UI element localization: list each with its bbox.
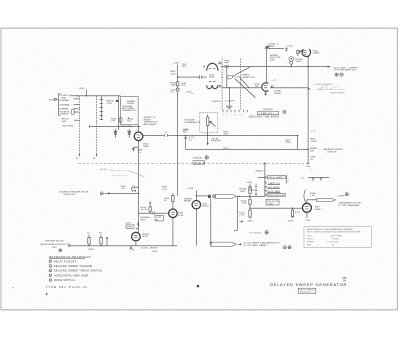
delay-time multiplier label — [184, 119, 200, 124]
+225V label above V642 — [187, 188, 194, 190]
wire gate column stub — [264, 162, 266, 197]
tube V764 label right — [313, 50, 321, 54]
capacitor C653 label — [183, 130, 189, 134]
pin cross marks — [219, 61, 221, 86]
wire V642 cathode down — [195, 209, 197, 246]
tick on V4 — [308, 88, 310, 91]
svg-text:CAPACITOR: CAPACITOR — [242, 76, 255, 79]
node junction neon/H2 — [291, 66, 292, 67]
series trim labels — [268, 43, 279, 48]
capacitor C649 — [132, 147, 138, 151]
cap row label — [301, 178, 305, 180]
svg-text:3: 3 — [50, 271, 51, 273]
svg-text:FROM CRO: FROM CRO — [64, 194, 77, 196]
svg-text:TRIG: TRIG — [127, 227, 133, 229]
svg-text:RELAY PICKOFF: RELAY PICKOFF — [54, 259, 77, 263]
gate row 2 — [268, 182, 281, 185]
ref item 5 — [49, 278, 75, 282]
switch contacts — [100, 100, 103, 120]
title DELAYED SWEEP GENERATOR — [270, 282, 347, 287]
ref item 1 — [49, 259, 77, 263]
svg-text:C740A: C740A — [234, 75, 241, 78]
model number — [343, 278, 348, 282]
capacitor C762 symbol — [285, 47, 287, 51]
resistor top labels — [87, 232, 103, 234]
svg-text:2.7K: 2.7K — [240, 215, 245, 217]
timing switch dashed wafer right — [239, 59, 241, 111]
svg-text:-150: -150 — [306, 166, 311, 168]
dashed box delay-time multiplier R660 — [200, 112, 218, 132]
svg-text:(DELAYED TIME BASE): (DELAYED TIME BASE) — [249, 116, 280, 119]
capacitor C634 in grid line — [153, 212, 155, 215]
svg-text:1 mSEC/CM SWEEP: 1 mSEC/CM SWEEP — [313, 84, 333, 86]
svg-text:SWEEP . . . . . . .5m: SWEEP . . . . . . .5m SEC/CM — [307, 242, 338, 244]
capacitor C669 label — [183, 129, 189, 133]
resistor R672 label — [223, 132, 229, 136]
svg-text:TRIG: TRIG — [49, 99, 55, 101]
node junction on H1 — [86, 95, 87, 96]
tube V764 label left — [297, 50, 303, 54]
ground symbol — [226, 106, 233, 109]
interconnect circle 2 — [340, 73, 343, 76]
svg-text:3-12: 3-12 — [130, 250, 135, 252]
svg-text:3.3M: 3.3M — [171, 85, 176, 87]
cap label C633A — [130, 250, 135, 252]
node junction V2/H3 — [177, 76, 178, 77]
wiper pivot dot — [221, 77, 222, 78]
plug-in connector bracket — [59, 94, 61, 115]
svg-text:LENGTH: LENGTH — [327, 151, 337, 153]
wire H3 to tube grid — [178, 76, 207, 78]
resistor R706 label — [239, 212, 245, 216]
wire right bus V4 — [307, 56, 309, 163]
svg-text:SWP: SWP — [62, 121, 68, 123]
svg-text:4: 4 — [50, 275, 51, 277]
resistor R637 label — [162, 187, 168, 191]
wire H6 continue — [237, 195, 265, 197]
wire tube V636 cathode down — [172, 218, 174, 246]
svg-text:THRESHOLD: THRESHOLD — [122, 110, 136, 112]
gray note dashes — [112, 175, 128, 177]
tube V645 label — [143, 144, 151, 148]
wire main sweep line H4 — [143, 134, 298, 136]
svg-text:HORIZONTAL AMPLIFIER: HORIZONTAL AMPLIFIER — [54, 273, 89, 277]
svg-text:GATE: GATE — [315, 208, 321, 211]
box side text SWEEP TO RESET — [144, 117, 158, 126]
sweep trig label — [140, 216, 150, 221]
svg-text:DELAYED TRIGGER PULSE: DELAYED TRIGGER PULSE — [59, 191, 89, 194]
svg-text:1.5K: 1.5K — [310, 195, 315, 197]
tube V636 trigger amp — [169, 209, 178, 218]
bottom connector pentagon — [211, 242, 237, 246]
svg-text:+B: +B — [310, 159, 313, 161]
svg-text:12AU6: 12AU6 — [274, 92, 282, 95]
resistor R673 label — [223, 148, 229, 150]
svg-text:CRO: CRO — [52, 247, 57, 249]
gray leader diagonal — [128, 171, 144, 177]
arrowhead H10 — [108, 192, 111, 194]
contact circles — [265, 177, 266, 196]
node dark blob — [116, 100, 118, 102]
svg-text:40K: 40K — [310, 150, 315, 152]
arrowhead H2 — [328, 66, 331, 68]
wire tube V652 pin stub bottom right — [218, 86, 222, 88]
diode D640 — [114, 129, 117, 138]
node junction V8/H7 — [249, 208, 250, 209]
tube V633B pickoff CF — [132, 232, 141, 241]
wire pot output drop — [207, 133, 209, 145]
delay pickoff dashed stub — [97, 168, 113, 171]
svg-text:MODE . . . . . . . .: MODE . . . . . . . . NORM — [307, 239, 339, 241]
node junction H9 — [88, 245, 89, 246]
wire delayed sweep output H2 — [221, 66, 330, 68]
tube V636 internal — [171, 212, 175, 214]
svg-text:100K: 100K — [268, 203, 274, 205]
capacitor C652 label — [165, 132, 168, 134]
capacitor C762 label — [285, 45, 293, 47]
svg-text:DIODE: DIODE — [127, 103, 135, 105]
capacitor C645 label — [170, 89, 176, 93]
SW660 wafer mark — [205, 156, 208, 159]
svg-text:-150V: -150V — [247, 221, 254, 223]
tube V652 label — [209, 74, 215, 78]
tube V636 label — [178, 213, 184, 217]
connector pin stubs — [74, 99, 80, 120]
svg-text:TYPE 581 PLUG-IN: TYPE 581 PLUG-IN — [46, 285, 88, 289]
+100V label top — [173, 63, 180, 65]
capacitor ground at H9 — [130, 246, 133, 249]
svg-text:TO HORIZ AMPL V74: TO HORIZ AMPL V74 — [334, 69, 357, 72]
waveform sketch — [317, 84, 346, 92]
gray sweep annotation — [313, 84, 333, 86]
sheet number mark — [197, 285, 199, 287]
svg-text:DELAYED SWEEP TRIGGER: DELAYED SWEEP TRIGGER — [54, 264, 93, 268]
wire +100V stub — [86, 89, 88, 96]
svg-text:+NORMAL: +NORMAL — [59, 103, 71, 106]
svg-text:100K: 100K — [296, 61, 302, 63]
title part box — [298, 288, 316, 293]
resistor R704 label — [241, 200, 247, 204]
svg-text:SW660A: SW660A — [193, 156, 202, 159]
TIME/DIV switch box — [258, 111, 279, 114]
svg-text:PICKOFF: PICKOFF — [211, 141, 221, 143]
resistor R704 — [249, 200, 251, 205]
svg-text:R631: R631 — [89, 249, 95, 251]
interconnect circle — [345, 193, 348, 196]
tube V760 holdoff CF — [262, 83, 269, 91]
svg-text:SWEEP: SWEEP — [60, 114, 69, 116]
tube V760 internal — [264, 86, 267, 88]
cap mark right — [272, 85, 273, 88]
resistor R706 — [249, 210, 251, 217]
svg-text:(LOW + MODE): (LOW + MODE) — [141, 248, 157, 250]
svg-text:+12.6: +12.6 — [310, 131, 316, 133]
svg-text:1K: 1K — [128, 121, 131, 123]
svg-text:TO CRT CATH. PANEL 7: TO CRT CATH. PANEL 7 — [243, 244, 269, 247]
svg-text:1 SW740: 1 SW740 — [212, 101, 222, 103]
svg-text:220K: 220K — [170, 73, 176, 75]
switch contact column — [100, 96, 102, 120]
svg-text:R673: R673 — [223, 148, 229, 150]
-150V label — [152, 251, 159, 253]
wire trigger level line — [90, 125, 141, 127]
svg-text:TO CRT (DIAGRAM): TO CRT (DIAGRAM) — [338, 204, 359, 207]
gate row 4 — [268, 191, 281, 193]
node junction on switch line — [307, 163, 309, 165]
misc right labels — [310, 131, 316, 133]
arrowhead H9 — [69, 245, 72, 247]
wire dashed switch line 1F — [78, 96, 80, 156]
svg-text:5: 5 — [50, 280, 51, 282]
tube V652 grids — [209, 69, 216, 82]
resistor R640 label — [106, 100, 113, 105]
node junction H4 right — [297, 135, 298, 136]
wire H6 from V7 — [196, 195, 208, 197]
node marks — [135, 129, 138, 131]
svg-text:1 C740F |: 1 C740F | — [225, 101, 235, 103]
svg-text:WITH CONTROLS SET AS FOLLOWS E: WITH CONTROLS SET AS FOLLOWS EXCEPT AS N… — [307, 231, 361, 234]
svg-text:R712: R712 — [295, 212, 301, 214]
heading underline — [49, 258, 85, 260]
svg-text:40.2K: 40.2K — [141, 209, 147, 211]
resistor R708 label — [310, 193, 316, 197]
wire tube plate to H8 — [307, 200, 317, 204]
wire dashed switch line 2F — [96, 96, 98, 156]
wire branch down — [185, 135, 187, 149]
wire riser to tunnel diode box — [117, 96, 119, 130]
wire bias chain V8 — [249, 184, 251, 219]
tube V714 label — [315, 207, 321, 211]
svg-text:( TIME / DIV ): ( TIME / DIV ) — [259, 113, 273, 115]
node junction R634 — [149, 213, 150, 214]
boxed label trig — [126, 225, 134, 228]
svg-text:2.2K: 2.2K — [162, 189, 167, 191]
dark segment on V5 — [137, 223, 139, 226]
tube V642 label — [202, 203, 210, 207]
svg-text:+150V: +150V — [310, 141, 317, 143]
svg-text:+225V: +225V — [246, 182, 253, 184]
delayed sweep unblanking label — [243, 242, 280, 247]
screen cap row — [308, 177, 329, 179]
wire tube V636 plate up — [172, 205, 174, 209]
capacitor C638 label — [120, 101, 122, 105]
label above box — [263, 109, 273, 111]
svg-text:75Ω TERM: 75Ω TERM — [62, 126, 73, 128]
svg-text:C633: C633 — [125, 223, 131, 225]
wire L to column — [258, 176, 265, 178]
svg-text:.001: .001 — [182, 66, 187, 68]
resistor R639 label — [111, 118, 117, 122]
svg-text:SWP HOLDOFF: SWP HOLDOFF — [268, 195, 285, 197]
pin mark top left — [203, 66, 205, 68]
resistor R649 on V2 — [177, 82, 179, 86]
capacitor C678 plates — [264, 164, 267, 165]
voltage readings note box — [304, 227, 372, 248]
tube V764 internal — [303, 50, 306, 54]
tunnel diode box text — [122, 101, 136, 123]
wire trigger bus H1 — [71, 95, 121, 97]
diode D641 — [128, 129, 131, 138]
node junction H4 branch — [185, 135, 186, 136]
node junction H9 — [100, 245, 101, 246]
svg-text:6DJ8: 6DJ8 — [178, 215, 184, 217]
node junction — [239, 196, 240, 197]
svg-text:+100V: +100V — [78, 88, 85, 90]
note box title — [307, 228, 354, 231]
svg-text:6DJ8: 6DJ8 — [209, 77, 215, 79]
svg-text:+225V: +225V — [187, 188, 194, 190]
low mode label — [141, 248, 157, 250]
svg-text:TRIG . . . . . . . .: TRIG . . . . . . . . . AUTO STAB — [307, 235, 342, 238]
resistor R758 label — [295, 58, 302, 63]
capacitor C630 — [131, 186, 138, 190]
SW660 boxed label — [193, 161, 205, 165]
svg-text:MAG . . . . . . . . .: MAG . . . . . . . . . X1 — [307, 244, 335, 247]
-150V label — [287, 221, 294, 223]
gate row 3 — [268, 186, 280, 189]
neon B758 dot — [290, 58, 292, 60]
wire box bottom to tube grid — [137, 125, 139, 132]
wire cap to sawtooth line — [226, 67, 228, 88]
svg-text:1: 1 — [50, 261, 51, 263]
svg-text:NORMAL: NORMAL — [59, 99, 69, 102]
node junction H2 — [307, 66, 309, 68]
capacitor C652 plates — [225, 61, 229, 67]
node mark — [191, 93, 194, 95]
note below box — [121, 126, 132, 128]
wire cathode drop V5 — [137, 141, 139, 228]
wire holdoff bus V3 — [266, 49, 268, 83]
svg-text:DELAYED SWEEP TIMING SWITCH: DELAYED SWEEP TIMING SWITCH — [54, 269, 102, 273]
label C740F — [225, 101, 235, 103]
wire V642 plate — [195, 190, 197, 200]
arrow after tip — [238, 243, 241, 245]
SW660 label — [254, 171, 264, 173]
svg-text:+100V: +100V — [173, 63, 180, 65]
svg-text:-150V: -150V — [305, 220, 312, 222]
resistor R647 label — [170, 71, 176, 75]
capacitor C651 in H3 — [200, 75, 202, 79]
wire sawtooth line H2b — [222, 87, 308, 89]
neon B758 base — [290, 61, 293, 64]
trimmer C649 label — [181, 83, 187, 87]
svg-text:MODE SWITCH: MODE SWITCH — [54, 278, 75, 282]
capacitor C636 label — [164, 198, 170, 202]
svg-text:+x: +x — [310, 170, 312, 172]
resistor R639 — [119, 118, 122, 122]
svg-text:220K: 220K — [107, 103, 113, 105]
svg-text:660B: 660B — [248, 190, 254, 192]
svg-text:TRIGGER PULSE: TRIGGER PULSE — [45, 241, 64, 243]
timing capacitor ellipse C740 — [227, 75, 233, 80]
waveform caption — [330, 92, 345, 94]
wire neon to H2 — [290, 64, 292, 66]
interconnect circles — [335, 73, 338, 76]
svg-text:6DJ8: 6DJ8 — [142, 236, 148, 238]
svg-text:12K: 12K — [224, 134, 229, 136]
label left of V642 — [184, 198, 193, 202]
tube V714 gate amp — [302, 203, 311, 212]
holdoff cap label — [270, 55, 281, 61]
wire H4 to H5 right — [297, 135, 299, 149]
resistor R712 label — [295, 212, 301, 214]
SW660B label — [248, 187, 254, 191]
switch wafer label 1F — [76, 158, 79, 160]
interconnect circle — [100, 192, 103, 195]
resistor R756 label — [254, 84, 260, 88]
svg-text:DELAYED SWEEP GENERATOR: DELAYED SWEEP GENERATOR — [270, 282, 347, 287]
arrowhead -150 — [207, 143, 209, 145]
resistor R712 — [291, 208, 293, 218]
tube V652 envelope top arc — [207, 63, 218, 70]
tube V642 reset multi — [192, 201, 200, 209]
interconnect circle — [59, 249, 62, 252]
off-page connector pentagon — [216, 194, 237, 198]
resistor R631 label — [89, 249, 95, 251]
svg-text:RESET: RESET — [184, 201, 192, 203]
svg-text:DEL'D +GATE: DEL'D +GATE — [268, 176, 283, 179]
svg-text:2: 2 — [50, 266, 51, 268]
reference drawings heading — [49, 255, 91, 259]
timing capacitor label — [242, 75, 255, 79]
tube V645 sweep-gating multi — [134, 132, 143, 141]
svg-text:-150V: -150V — [287, 221, 294, 223]
svg-text:TRIG: TRIG — [61, 97, 67, 99]
resistor R704A label — [239, 188, 246, 193]
svg-text:+ C762: + C762 — [285, 45, 293, 47]
wire R634 branch — [149, 204, 151, 214]
termination label — [62, 126, 73, 128]
wire long switch dash line — [78, 162, 308, 164]
capacitor C672 label — [189, 137, 195, 141]
delayed sweep out label — [334, 67, 358, 71]
switch contact row — [223, 110, 247, 112]
svg-text:1M: 1M — [255, 86, 258, 88]
svg-text:12AU7: 12AU7 — [143, 145, 151, 148]
switch wafer label 2F — [93, 158, 96, 160]
resistor R704A — [249, 187, 251, 194]
trimmer cap top of V3 — [265, 46, 270, 49]
node cathode — [307, 56, 309, 58]
wire main bus V2 — [176, 65, 178, 196]
capacitor C649 label — [137, 150, 143, 154]
wire H10 trigger input — [105, 192, 139, 194]
switch wiper diagonals — [232, 67, 255, 97]
tube V633B label — [142, 234, 149, 238]
wire V10 drop — [210, 198, 212, 242]
resistor R637 above V636 — [172, 193, 174, 205]
svg-text:DELAY SW: DELAY SW — [194, 161, 206, 164]
svg-text:1-25: 1-25 — [181, 85, 186, 87]
switch position labels — [223, 115, 244, 117]
wire drop from connector tip — [234, 197, 238, 231]
svg-text:COMPARATOR: COMPARATOR — [184, 121, 200, 124]
node junction V5/H10 — [138, 193, 139, 194]
svg-text:+ C7: + C7 — [271, 80, 277, 82]
capacitor C645 on V2 — [176, 88, 179, 91]
node junction H5 right — [307, 149, 309, 151]
+225 label — [271, 80, 277, 82]
SW660A wafer mark — [265, 231, 268, 234]
svg-text:CAP: CAP — [270, 58, 275, 61]
svg-text:— DELAY ———: — DELAY ——— — [97, 168, 113, 171]
registration mark — [45, 293, 48, 296]
svg-text:NO SW660A: NO SW660A — [250, 232, 262, 235]
+300 label — [305, 220, 312, 222]
wire R630 to switch — [74, 111, 79, 113]
delayed trigger pulse label — [59, 191, 89, 197]
balance sweep length label — [310, 147, 343, 153]
